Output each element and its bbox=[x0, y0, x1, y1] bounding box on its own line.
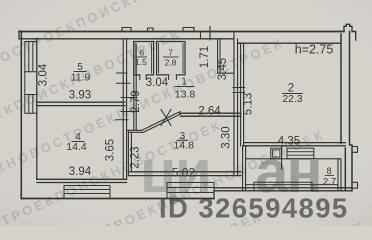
room 2 right wall bbox=[341, 32, 352, 191]
balcony door box bbox=[271, 148, 282, 159]
right wall bump upper bbox=[352, 147, 358, 153]
balcony door leaf bbox=[281, 146, 283, 170]
room 7 door jambs bbox=[169, 75, 177, 80]
top-right castle corner bbox=[344, 24, 356, 40]
room 3 left wall bbox=[128, 130, 131, 175]
vent bump 2 on top wall bbox=[148, 28, 154, 32]
svg-text:1.71: 1.71 bbox=[199, 46, 211, 68]
niche bottom bbox=[218, 72, 234, 74]
corridor wall (left edge of hall) bbox=[134, 42, 136, 131]
svg-text:2: 2 bbox=[288, 83, 294, 95]
svg-text:14.4: 14.4 bbox=[66, 141, 87, 153]
room 3 bottom wall bbox=[128, 172, 240, 176]
svg-text:13.8: 13.8 bbox=[175, 89, 196, 101]
room 2 top inner line bbox=[238, 42, 341, 44]
left wall inner edge bbox=[36, 39, 38, 180]
svg-text:2.79: 2.79 bbox=[130, 90, 142, 112]
svg-text:2.64: 2.64 bbox=[198, 106, 221, 118]
room 6 door jambs bbox=[140, 75, 146, 80]
cian watermark letters bbox=[140, 138, 321, 205]
loggia glazing strip bbox=[254, 182, 312, 191]
svg-text:5.13: 5.13 bbox=[243, 93, 255, 115]
balcony window box bbox=[287, 148, 314, 159]
window under room 4 bbox=[64, 186, 110, 199]
window under room 3 bbox=[167, 183, 214, 199]
divider wall rooms 5/4 bbox=[37, 102, 125, 105]
svg-text:3.93: 3.93 bbox=[69, 90, 91, 102]
window W2 room 5/4 left bbox=[25, 95, 37, 114]
wall pier left bbox=[25, 72, 37, 95]
svg-text:1.5: 1.5 bbox=[135, 57, 147, 67]
svg-text:8: 8 bbox=[326, 166, 331, 176]
top wall inner line bbox=[19, 38, 234, 40]
vent bump 1 on top wall bbox=[122, 28, 131, 32]
svg-text:3.94: 3.94 bbox=[69, 166, 92, 178]
svg-text:3.04: 3.04 bbox=[146, 77, 169, 89]
tick on top wall bbox=[209, 27, 211, 41]
room 3 top wall bbox=[180, 113, 241, 116]
svg-text:3.04: 3.04 bbox=[38, 63, 50, 86]
entrance step line bbox=[200, 32, 202, 39]
loggia inner bottom bbox=[246, 184, 338, 186]
loggia right wall bbox=[338, 159, 341, 191]
svg-text:11.9: 11.9 bbox=[71, 72, 91, 84]
svg-text:3.65: 3.65 bbox=[105, 139, 117, 161]
bottom step bbox=[213, 191, 215, 199]
bottom outer wall bbox=[21, 198, 214, 200]
loggia left wall bbox=[243, 146, 246, 191]
svg-text:22.3: 22.3 bbox=[282, 94, 302, 105]
window W1 room 5 left bbox=[25, 42, 37, 72]
svg-text:ID 326594895: ID 326594895 bbox=[159, 193, 349, 224]
room 4 bottom wall bbox=[37, 179, 127, 182]
room 3 nook cap bbox=[127, 130, 143, 132]
dimension ticks hall west bbox=[116, 98, 138, 120]
X tick on diagonal bbox=[161, 110, 171, 126]
top-left wall cap bbox=[18, 32, 20, 39]
closet room 6 box bbox=[134, 42, 154, 75]
diagonal wall hall/room3 bbox=[142, 112, 181, 133]
left outer wall bbox=[20, 32, 22, 199]
svg-text:2.7: 2.7 bbox=[323, 177, 336, 188]
svg-text:1: 1 bbox=[181, 77, 187, 88]
room 2 bottom wall bbox=[244, 143, 346, 146]
svg-text:3.30: 3.30 bbox=[221, 126, 233, 148]
bottom-right corner bump bbox=[352, 182, 358, 188]
room labels and dimensions bbox=[38, 43, 337, 188]
vent bump 3 on top wall bbox=[183, 28, 194, 32]
svg-text:3.45: 3.45 bbox=[217, 58, 229, 80]
svg-text:2.8: 2.8 bbox=[165, 57, 177, 67]
outer top wall bbox=[19, 31, 344, 33]
bottom wall right part (loggia) bbox=[214, 188, 352, 191]
svg-text:h=2.75: h=2.75 bbox=[295, 43, 334, 57]
ticks on room2 left wall bbox=[233, 88, 245, 93]
room 2 left wall inner pair bbox=[241, 43, 244, 146]
niche wall (1.71) bbox=[218, 39, 220, 73]
wall hall/room2 outer pair bbox=[234, 32, 238, 176]
door jamb ticks room 5 bbox=[117, 73, 131, 83]
svg-text:7: 7 bbox=[168, 49, 173, 58]
loggia top line bbox=[246, 158, 341, 160]
closet room 7 box bbox=[157, 42, 185, 75]
hall west wall (right of rooms 5 and 4) bbox=[123, 39, 126, 180]
